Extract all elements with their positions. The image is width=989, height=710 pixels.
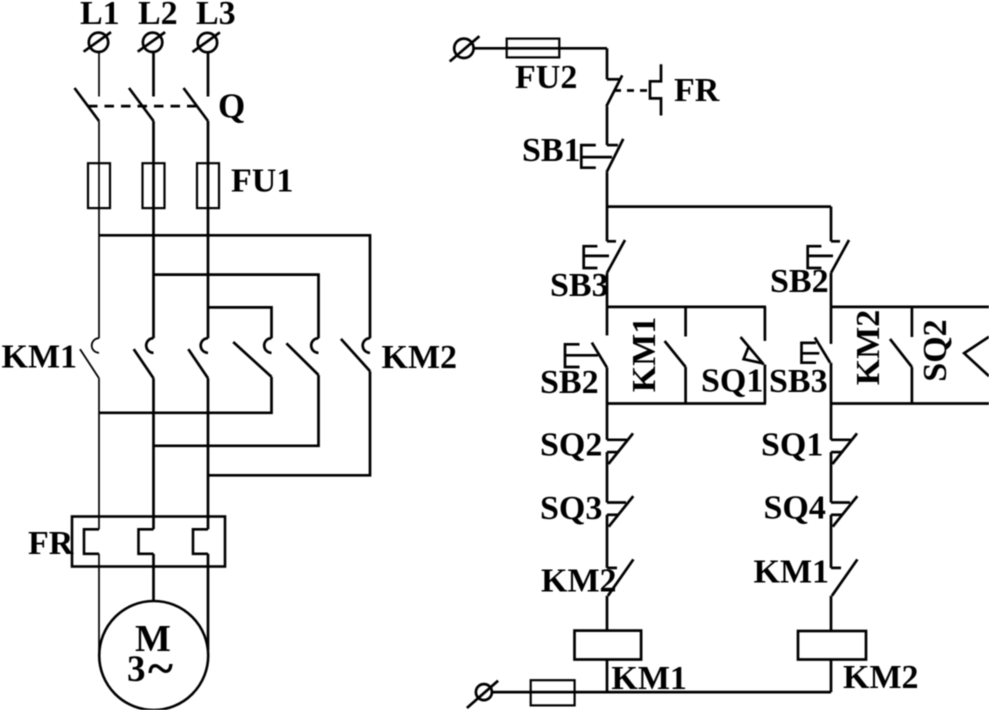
svg-text:L2: L2: [138, 0, 178, 32]
limit contact SQ4 (NC) upper tick: [831, 501, 850, 504]
aux contact KM1 blade: [665, 341, 686, 367]
pushbutton SB2 (NC, right rail) tick: [831, 240, 840, 243]
wire bus L1 to KM2 contact 6: [99, 235, 370, 338]
relay contact FR blade: [606, 75, 622, 106]
pushbutton SB2 NO blade: [592, 343, 607, 368]
limit contact SQ1 (NC) upper tick: [831, 438, 851, 441]
wire FR to motor right: [207, 554, 210, 650]
wire L3 terminal to switch: [207, 52, 210, 97]
wire Q to FU1 pole2 down to contact arc: [152, 121, 155, 338]
svg-text:FU1: FU1: [231, 163, 293, 200]
wire SQ3 to KM2 interlock: [606, 515, 609, 568]
limit contact SQ4 label: [764, 490, 826, 527]
pushbutton SB3 label: [550, 267, 609, 304]
left parallel box top wire: [607, 306, 766, 309]
limit switch SQ1 bottom wire: [764, 365, 767, 404]
limit contact SQ2 lower tick: [607, 451, 618, 454]
relay FR label: [674, 72, 720, 109]
node L3 label: [196, 0, 236, 32]
contactor KM2 main contact 6: [341, 338, 370, 371]
wire FR to motor left: [98, 554, 100, 650]
svg-text:FU2: FU2: [515, 59, 577, 96]
pushbutton SB3 (NC, left rail) tick: [607, 240, 616, 243]
svg-text:SB2: SB2: [540, 364, 599, 401]
fuse FU1 pole3: [197, 163, 219, 208]
limit contact SQ2 blade: [608, 433, 633, 464]
svg-text:SB3: SB3: [769, 363, 828, 400]
left parallel box bottom wire: [607, 402, 766, 405]
wire Q to FU1 pole3 down to contact arc: [207, 121, 210, 338]
limit switch SQ2 rotated label: [917, 319, 954, 381]
terminal L1: [84, 32, 111, 52]
interlock contact KM1 (NC) tick: [831, 567, 841, 570]
FR heater label: [28, 525, 74, 562]
wire left box to SQ2: [606, 404, 609, 440]
svg-text:SQ1: SQ1: [701, 363, 763, 400]
wire SB1 to split: [606, 172, 609, 241]
fuse FU1 pole1: [88, 163, 110, 208]
svg-text:KM1: KM1: [2, 338, 78, 375]
svg-text:SQ2: SQ2: [917, 319, 954, 381]
wire contact5 bottom crossover to column2: [154, 375, 319, 446]
wire SB2 to right box: [830, 273, 833, 307]
svg-text:L1: L1: [80, 0, 120, 32]
right parallel box top wire: [831, 306, 989, 309]
limit contact SQ4 lower tick: [831, 513, 842, 516]
contactor KM2 main contacts label: [382, 339, 458, 376]
wire SQ2 to SQ3: [606, 452, 609, 502]
pushbutton SB3 NO actuator E: [802, 343, 820, 363]
pushbutton SB1 label: [522, 132, 581, 169]
svg-text:KM1: KM1: [754, 554, 830, 591]
wire FR contact to SB1: [606, 106, 609, 145]
svg-text:KM2: KM2: [850, 310, 887, 386]
pushbutton SB3 (NO, in right box) top wire: [830, 307, 833, 344]
limit contact SQ4 blade: [833, 496, 858, 527]
interlock contact KM2 (NC) tick: [607, 567, 617, 570]
svg-text:3: 3: [127, 649, 146, 690]
pushbutton SB2 NO actuator E: [565, 344, 598, 367]
svg-text:KM2: KM2: [541, 563, 617, 600]
motor 3~ label: [127, 642, 173, 695]
fuse FU2: [507, 39, 560, 58]
svg-text:KM1: KM1: [626, 317, 663, 393]
coil KM2 label: [843, 659, 919, 696]
wire split horizontal: [607, 205, 831, 208]
right parallel box bottom wire: [831, 402, 989, 405]
limit switch SQ2 wedge (clipped at edge): [964, 337, 989, 376]
contactor KM2 main contact 4: [233, 338, 271, 377]
limit contact SQ2 label: [540, 427, 602, 464]
svg-text:SQ3: SQ3: [540, 490, 602, 527]
wire right box to SQ1: [830, 404, 833, 440]
pushbutton SB1 blade: [607, 139, 624, 172]
pushbutton SB2 label: [770, 263, 829, 300]
wire corner down to FR contact: [606, 48, 609, 79]
switch Q pole 3 blade: [184, 88, 209, 121]
svg-text:~: ~: [148, 642, 173, 695]
limit contact SQ2 (NC) upper tick: [607, 438, 627, 441]
relay FR dashed link: [614, 89, 650, 92]
wire SQ1 to SQ4: [830, 452, 833, 502]
interlock contact KM1 label: [754, 554, 830, 591]
wire L1 terminal to switch: [98, 52, 100, 97]
wire KM2 interlock to coil: [606, 596, 609, 631]
svg-text:L3: L3: [196, 0, 236, 32]
pushbutton SB3 actuator E: [584, 246, 609, 268]
wire contact4 bottom crossover to column1: [99, 377, 272, 413]
pushbutton SB2 (NO, in left box) top wire: [606, 307, 609, 336]
FR heater element 2: [139, 529, 154, 554]
svg-text:SQ1: SQ1: [761, 427, 823, 464]
wire SQ4 to KM1 interlock: [830, 515, 833, 568]
switch Q pole 2 blade: [129, 88, 154, 121]
coil KM2: [798, 631, 866, 660]
svg-text:Q: Q: [218, 87, 245, 126]
fuse bottom: [531, 680, 575, 705]
switch Q label: [218, 87, 245, 126]
pushbutton SB2 actuator E: [808, 246, 833, 268]
svg-text:SB3: SB3: [550, 267, 609, 304]
contactor KM1 main contacts label: [2, 338, 78, 375]
pushbutton SB3 NO label: [769, 363, 828, 400]
pushbutton SB2 blade: [831, 240, 849, 273]
limit switch SQ1 (NO, left box right edge) top wire: [764, 307, 767, 341]
wire Q to FU1 pole1 + through fuse down to contact arc: [98, 121, 100, 338]
thermal relay FR heater box: [72, 517, 225, 567]
wire L2 terminal to switch: [152, 52, 155, 97]
fuse FU2 label: [515, 59, 577, 96]
contactor KM1 main contact 2: [134, 338, 154, 378]
limit contact SQ3 blade: [609, 496, 634, 527]
control terminal top: [450, 36, 480, 61]
contactor KM1 main contact 1: [80, 338, 99, 378]
wire right rail top: [830, 207, 833, 242]
limit contact SQ1 blade: [832, 433, 857, 464]
terminal L3: [193, 32, 220, 52]
pushbutton SB1 (NC) tick: [607, 144, 618, 147]
aux contact KM1 bottom wire: [684, 367, 687, 404]
interlock contact KM1 blade: [832, 559, 858, 595]
pushbutton SB3 NO blade: [815, 337, 830, 362]
svg-text:KM2: KM2: [382, 339, 458, 376]
coil KM1: [575, 631, 642, 660]
FR heater element 3: [193, 529, 208, 554]
terminal L2: [138, 32, 165, 52]
aux contact KM2 rotated label: [850, 310, 887, 386]
interlock contact KM2 label: [541, 563, 617, 600]
pushbutton SB1 actuator E: [581, 145, 612, 168]
limit contact SQ1 label: [761, 427, 823, 464]
pushbutton SB2 NO label: [540, 364, 599, 401]
wire FR to motor middle: [152, 554, 155, 601]
wire SB3 to left box: [606, 273, 609, 307]
fuse FU1 pole2: [143, 163, 165, 208]
relay contact FR (NC) tick: [607, 78, 620, 81]
control terminal bottom: [467, 681, 498, 708]
motor M circle: [99, 601, 208, 710]
coil KM1 label: [611, 660, 687, 697]
wire KM1 interlock to coil: [830, 596, 833, 631]
aux contact KM2 (NO) top wire: [911, 307, 914, 337]
pushbutton SB3 blade: [607, 240, 625, 273]
relay FR actuator bracket: [650, 64, 661, 115]
limit contact SQ3 label: [540, 490, 602, 527]
wire contact1 down to FR: [98, 378, 100, 529]
pushbutton SB2 NO bottom wire: [606, 368, 609, 404]
wire contact2 down to FR: [152, 378, 155, 529]
limit switch SQ1 blade: [741, 337, 764, 365]
aux contact KM2 blade: [890, 339, 912, 367]
switch Q linkage dashed: [88, 105, 196, 108]
limit contact SQ3 lower tick: [607, 513, 618, 516]
svg-text:FR: FR: [674, 72, 720, 109]
bottom wire line: [492, 691, 831, 694]
interlock contact KM2 blade: [608, 559, 634, 595]
svg-text:SB1: SB1: [522, 132, 581, 169]
contactor KM2 main contact 5: [286, 338, 318, 375]
aux contact KM1 (NO) top wire: [684, 307, 687, 337]
wire contact6 bottom crossover to column3: [208, 371, 370, 475]
svg-text:SB2: SB2: [770, 263, 829, 300]
limit switch SQ1 label: [701, 363, 763, 400]
aux contact KM2 bottom wire: [911, 367, 914, 404]
wire contact3 down to FR: [207, 378, 210, 529]
limit contact SQ3 (NC) upper tick: [607, 501, 626, 504]
limit contact SQ1 lower tick: [831, 451, 842, 454]
wire bus L3 to KM2 contact 4: [208, 307, 272, 338]
limit switch SQ1 wedge: [744, 347, 764, 364]
motor M label: [135, 618, 171, 660]
svg-text:SQ2: SQ2: [540, 427, 602, 464]
wire coil KM1 to bottom line: [606, 660, 609, 693]
node L1 label: [80, 0, 120, 32]
svg-text:KM2: KM2: [843, 659, 919, 696]
wire terminal to corner through FU2: [474, 47, 607, 50]
svg-text:FR: FR: [28, 525, 74, 562]
contactor KM1 main contact 3: [188, 338, 208, 378]
wire bus L2 to KM2 contact 5: [154, 275, 319, 339]
svg-text:SQ4: SQ4: [764, 490, 826, 527]
wire coil KM2 to bottom line: [830, 660, 833, 693]
aux contact KM1 rotated label: [626, 317, 663, 393]
switch Q pole 1 blade: [75, 88, 100, 121]
FR heater element 1: [84, 529, 99, 554]
node L2 label: [138, 0, 178, 32]
pushbutton SB3 NO bottom wire: [830, 363, 833, 404]
fuse FU1 label: [231, 163, 293, 200]
